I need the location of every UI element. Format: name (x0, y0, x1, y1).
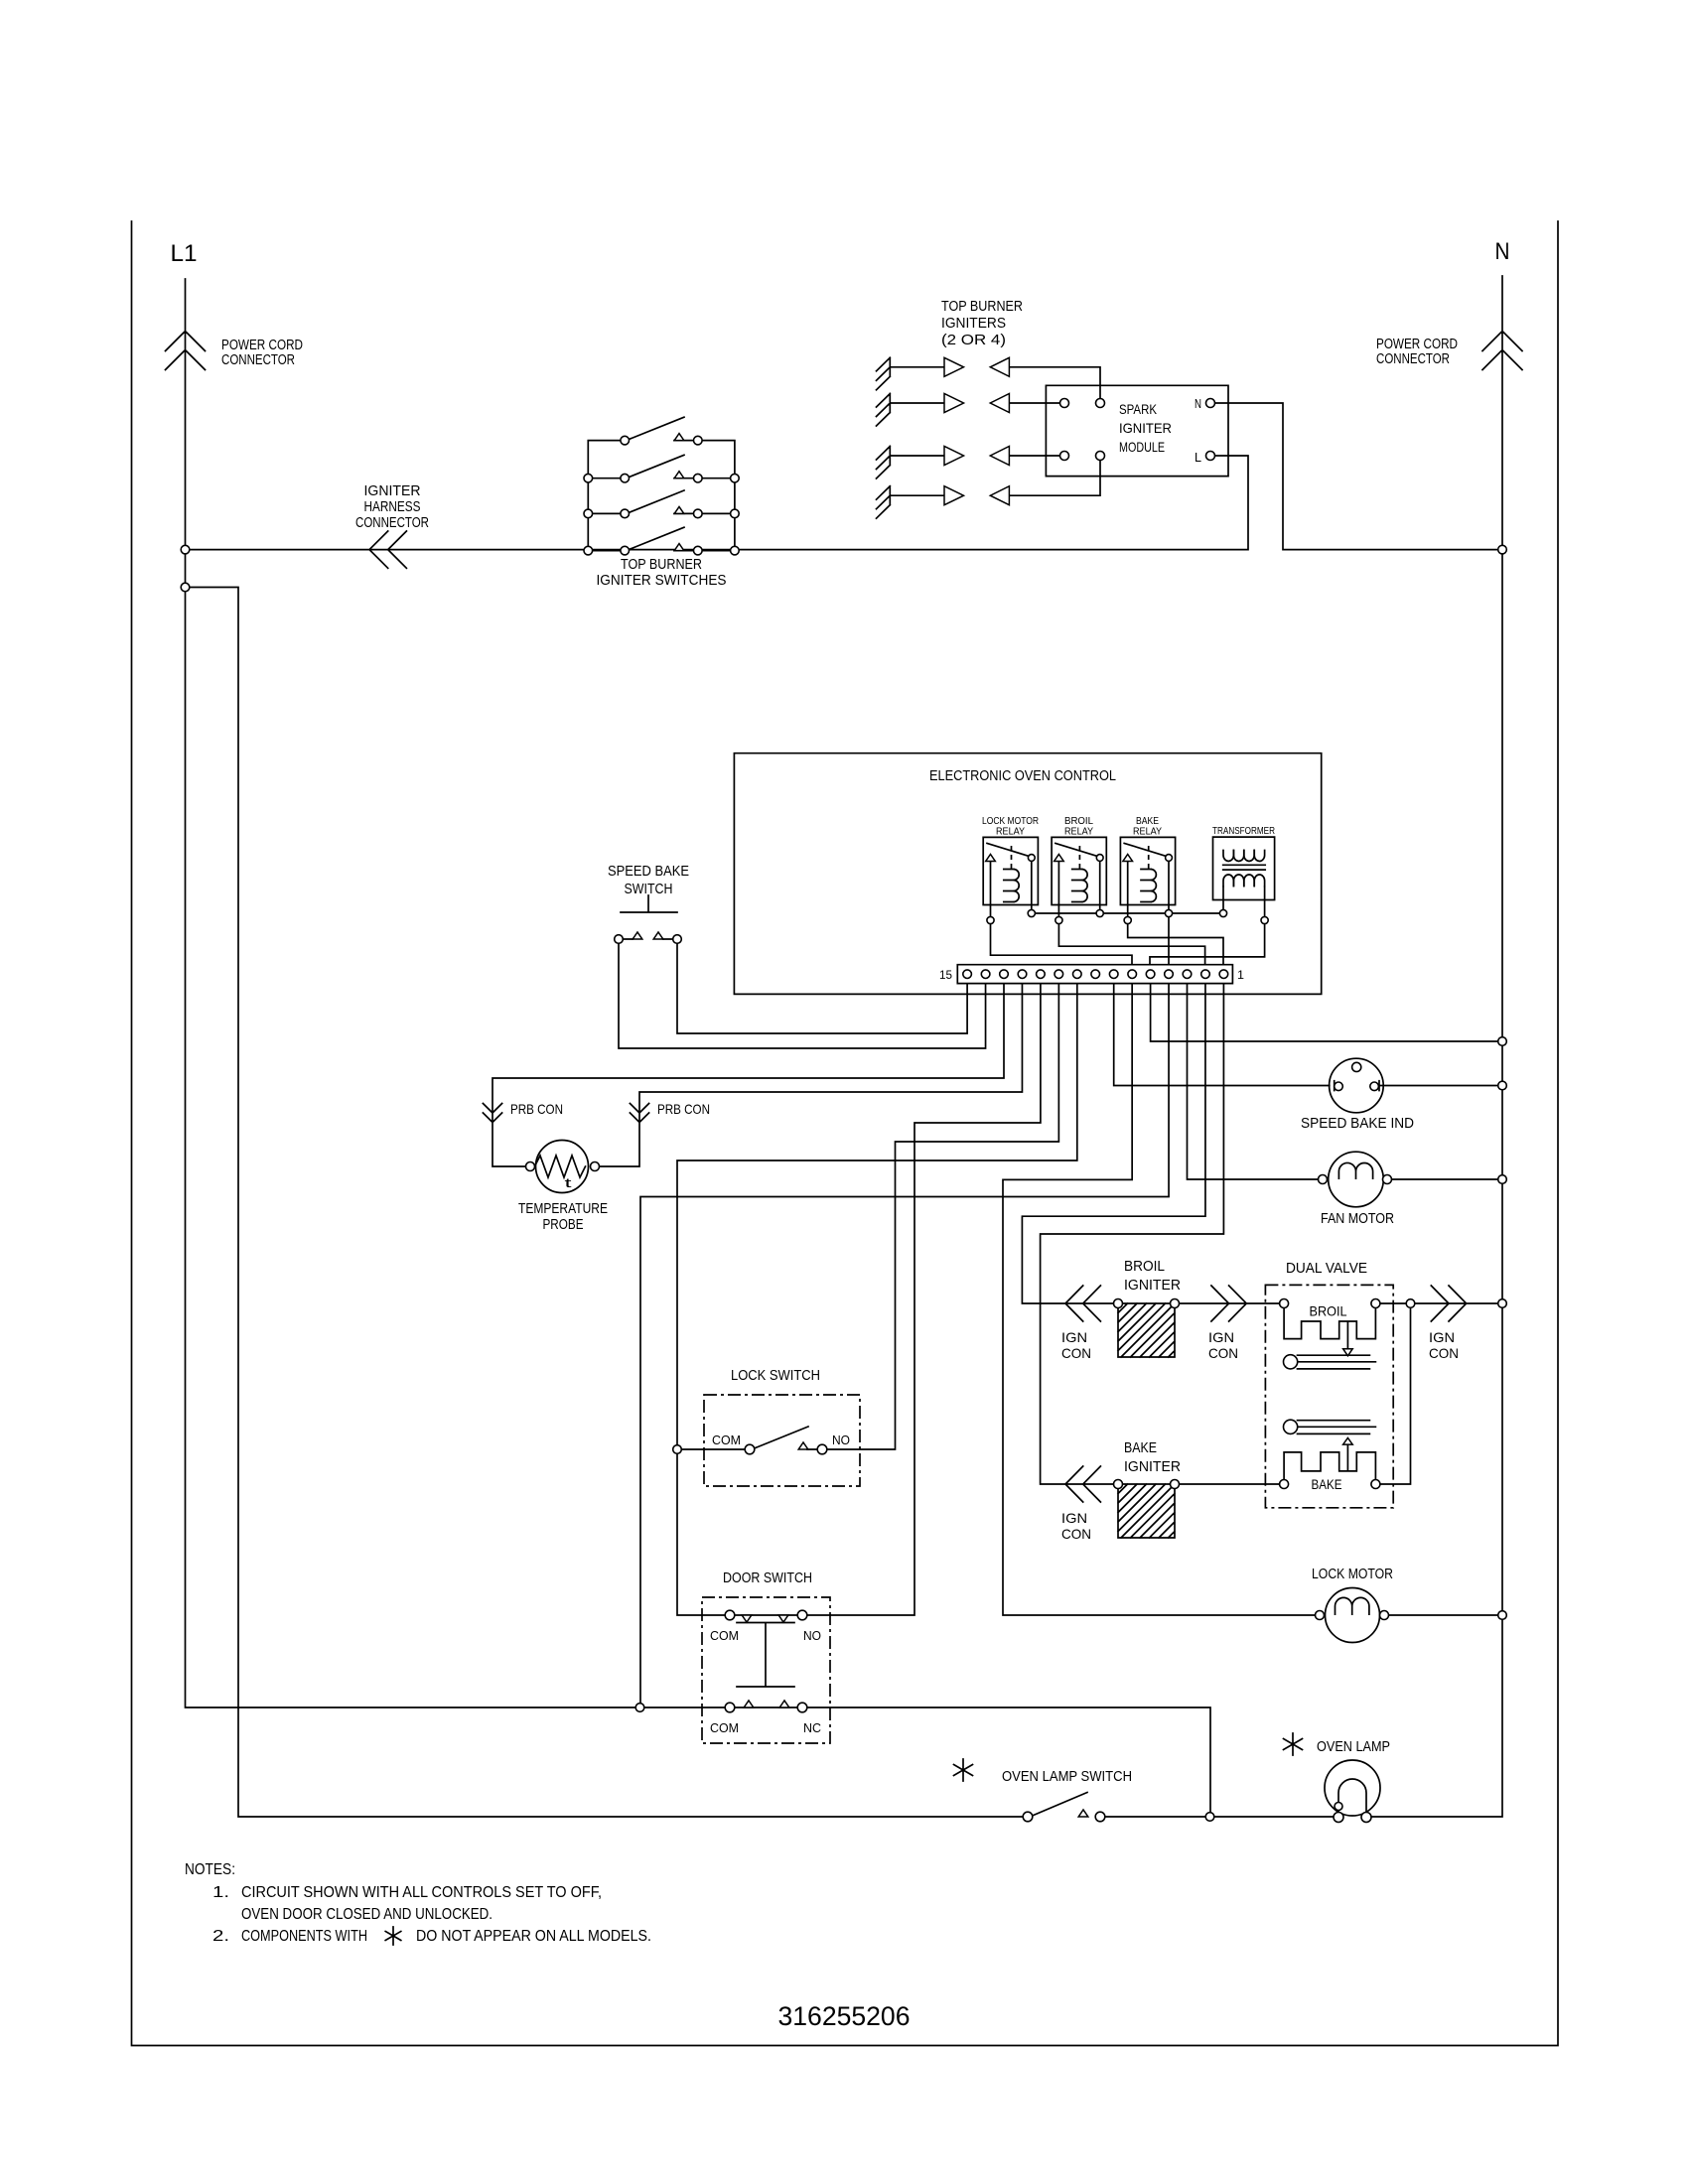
svg-text:BAKE: BAKE (1124, 1439, 1157, 1456)
svg-text:316255206: 316255206 (778, 2001, 911, 2031)
svg-text:NC: NC (803, 1720, 821, 1735)
svg-text:IGN: IGN (1208, 1329, 1234, 1345)
svg-text:CONNECTOR: CONNECTOR (221, 351, 295, 368)
svg-text:PRB CON: PRB CON (657, 1101, 710, 1117)
svg-text:2.: 2. (212, 1928, 229, 1945)
svg-text:RELAY: RELAY (1064, 826, 1093, 838)
svg-text:CON: CON (1208, 1345, 1238, 1361)
svg-text:IGNITERS: IGNITERS (941, 315, 1006, 332)
svg-text:IGN: IGN (1429, 1329, 1455, 1345)
svg-text:CONNECTOR: CONNECTOR (1376, 350, 1450, 367)
svg-text:ELECTRONIC OVEN CONTROL: ELECTRONIC OVEN CONTROL (929, 767, 1116, 784)
svg-text:DO NOT APPEAR ON ALL MODELS.: DO NOT APPEAR ON ALL MODELS. (416, 1928, 651, 1945)
svg-text:LOCK SWITCH: LOCK SWITCH (731, 1367, 820, 1384)
svg-text:COM: COM (710, 1628, 739, 1643)
svg-text:OVEN LAMP: OVEN LAMP (1317, 1738, 1390, 1755)
svg-text:IGNITER: IGNITER (1124, 1458, 1181, 1475)
svg-text:COM: COM (712, 1433, 741, 1447)
svg-text:TOP BURNER: TOP BURNER (941, 298, 1023, 315)
svg-text:NO: NO (832, 1433, 850, 1447)
svg-text:DUAL VALVE: DUAL VALVE (1286, 1260, 1367, 1277)
svg-text:15: 15 (939, 968, 952, 982)
svg-text:PROBE: PROBE (543, 1216, 584, 1233)
svg-text:IGNITER: IGNITER (1119, 420, 1172, 436)
svg-text:OVEN LAMP SWITCH: OVEN LAMP SWITCH (1002, 1768, 1132, 1785)
svg-text:CON: CON (1061, 1345, 1091, 1361)
svg-text:HARNESS: HARNESS (364, 498, 421, 515)
svg-text:N: N (1495, 238, 1510, 265)
svg-text:COM: COM (710, 1720, 739, 1735)
svg-text:BROIL: BROIL (1124, 1258, 1165, 1275)
svg-text:CON: CON (1061, 1526, 1091, 1542)
svg-text:CON: CON (1429, 1345, 1459, 1361)
svg-text:1.: 1. (212, 1884, 229, 1901)
svg-text:MODULE: MODULE (1119, 439, 1165, 455)
svg-text:L: L (1195, 450, 1201, 465)
svg-text:SPEED BAKE IND: SPEED BAKE IND (1301, 1115, 1414, 1132)
svg-text:SWITCH: SWITCH (625, 881, 673, 897)
svg-text:OVEN DOOR CLOSED AND UNLOCKED.: OVEN DOOR CLOSED AND UNLOCKED. (241, 1906, 492, 1923)
svg-text:FAN MOTOR: FAN MOTOR (1321, 1210, 1394, 1227)
svg-text:TRANSFORMER: TRANSFORMER (1212, 825, 1275, 837)
svg-text:IGNITER SWITCHES: IGNITER SWITCHES (597, 572, 727, 589)
svg-text:BROIL: BROIL (1310, 1303, 1347, 1319)
svg-text:IGN: IGN (1061, 1510, 1087, 1526)
svg-text:CONNECTOR: CONNECTOR (355, 514, 429, 531)
svg-text:N: N (1195, 396, 1201, 411)
svg-text:COMPONENTS WITH: COMPONENTS WITH (241, 1928, 367, 1945)
svg-text:IGN: IGN (1061, 1329, 1087, 1345)
svg-text:SPARK: SPARK (1119, 401, 1158, 417)
svg-text:L1: L1 (171, 240, 198, 267)
svg-text:PRB CON: PRB CON (510, 1101, 563, 1117)
svg-text:NO: NO (803, 1628, 821, 1643)
svg-text:LOCK MOTOR: LOCK MOTOR (1312, 1566, 1393, 1582)
svg-text:CIRCUIT SHOWN WITH ALL CONTROL: CIRCUIT SHOWN WITH ALL CONTROLS SET TO O… (241, 1884, 602, 1901)
svg-text:DOOR SWITCH: DOOR SWITCH (723, 1570, 812, 1586)
svg-text:TOP BURNER: TOP BURNER (621, 556, 702, 573)
svg-text:TEMPERATURE: TEMPERATURE (518, 1200, 608, 1217)
svg-text:RELAY: RELAY (996, 826, 1025, 838)
svg-text:(2 OR 4): (2 OR 4) (941, 332, 1006, 348)
svg-text:IGNITER: IGNITER (364, 482, 421, 499)
svg-text:1: 1 (1237, 968, 1244, 982)
svg-text:NOTES:: NOTES: (185, 1861, 235, 1878)
svg-text:IGNITER: IGNITER (1124, 1277, 1181, 1294)
svg-text:BAKE: BAKE (1312, 1476, 1342, 1492)
svg-text:SPEED BAKE: SPEED BAKE (608, 863, 689, 880)
svg-text:t: t (565, 1175, 573, 1190)
svg-text:RELAY: RELAY (1133, 826, 1162, 838)
